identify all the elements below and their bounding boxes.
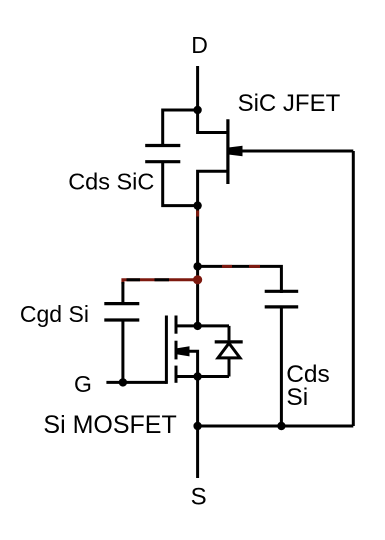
wire Cgd bottom lead — [121, 319, 124, 383]
label G — [74, 371, 92, 397]
wire Cgd Si red — [123, 280, 198, 284]
label Cds Si line1 — [286, 361, 330, 388]
MOSFET channel segment middle — [175, 341, 178, 360]
label Si MOSFET — [43, 411, 176, 439]
wire Cds Si bottom lead — [280, 306, 283, 427]
transistor SiC JFET channel bar — [226, 119, 229, 184]
svg-text:G: G — [74, 371, 92, 397]
junction Cds Si bottom node — [277, 422, 285, 430]
svg-text:Si: Si — [286, 384, 308, 411]
label Cds Si line2 — [286, 384, 308, 411]
wire Cds SiC bottom lead — [163, 161, 198, 206]
wire JFET source connection — [198, 171, 228, 205]
wire gate-to-source right outer — [352, 151, 355, 426]
wire bottom rail — [198, 425, 354, 428]
wire body diode bottom lead — [228, 358, 231, 377]
junction middle node — [193, 262, 201, 270]
capacitor Cgd Si — [104, 304, 139, 320]
junction source rail node — [193, 422, 201, 430]
junction JFET drain node — [193, 106, 201, 114]
label Cds SiC — [68, 169, 154, 195]
junction gate node — [119, 378, 127, 386]
label Cgd Si — [20, 301, 89, 327]
junction MOSFET source node — [193, 372, 201, 380]
wire JFET gate — [240, 150, 353, 153]
MOSFET channel segment bottom — [175, 366, 178, 383]
svg-text:Cgd Si: Cgd Si — [20, 301, 89, 327]
node D label — [191, 32, 208, 58]
wire JFET drain connection — [198, 110, 228, 133]
wire MOSFET body connection — [188, 351, 198, 376]
wire to Cds Si — [198, 266, 282, 293]
wire Cds SiC top lead — [163, 110, 198, 147]
capacitor Cds Si — [265, 291, 299, 307]
wire body diode top lead — [228, 326, 231, 341]
capacitor Cds SiC — [145, 146, 180, 162]
transistor Si MOSFET gate bar — [165, 316, 168, 384]
wire main vertical upper — [196, 206, 199, 267]
body diode cathode bar — [215, 340, 243, 343]
svg-text:Cds SiC: Cds SiC — [68, 169, 154, 195]
junction MOSFET drain node — [193, 322, 201, 330]
wire S lead — [196, 426, 199, 478]
svg-text:SiC JFET: SiC JFET — [238, 90, 341, 117]
red junction Cgd node — [193, 275, 202, 284]
wire MOSFET source rail — [176, 375, 229, 378]
MOSFET channel segment top — [175, 316, 178, 334]
wire G lead — [106, 381, 166, 384]
wire MOSFET drain rail — [176, 324, 229, 327]
label SiC JFET — [238, 90, 341, 117]
svg-text:Si MOSFET: Si MOSFET — [43, 411, 176, 439]
svg-text:S: S — [191, 484, 207, 511]
body diode triangle — [218, 343, 240, 358]
black dashes on Cgd wire — [127, 278, 141, 281]
wire main vertical middle — [196, 266, 199, 326]
wire source down — [196, 377, 199, 427]
junction JFET source node — [193, 201, 201, 209]
wire drain lead D — [196, 66, 199, 110]
red mark below node — [196, 211, 199, 217]
MOSFET body arrowhead — [177, 346, 189, 356]
red dashes on Cds Si wire — [222, 265, 232, 268]
JFET gate arrowhead — [229, 146, 242, 156]
svg-text:D: D — [191, 32, 208, 58]
wire Cgd top lead — [121, 282, 124, 305]
node S label — [191, 484, 207, 511]
